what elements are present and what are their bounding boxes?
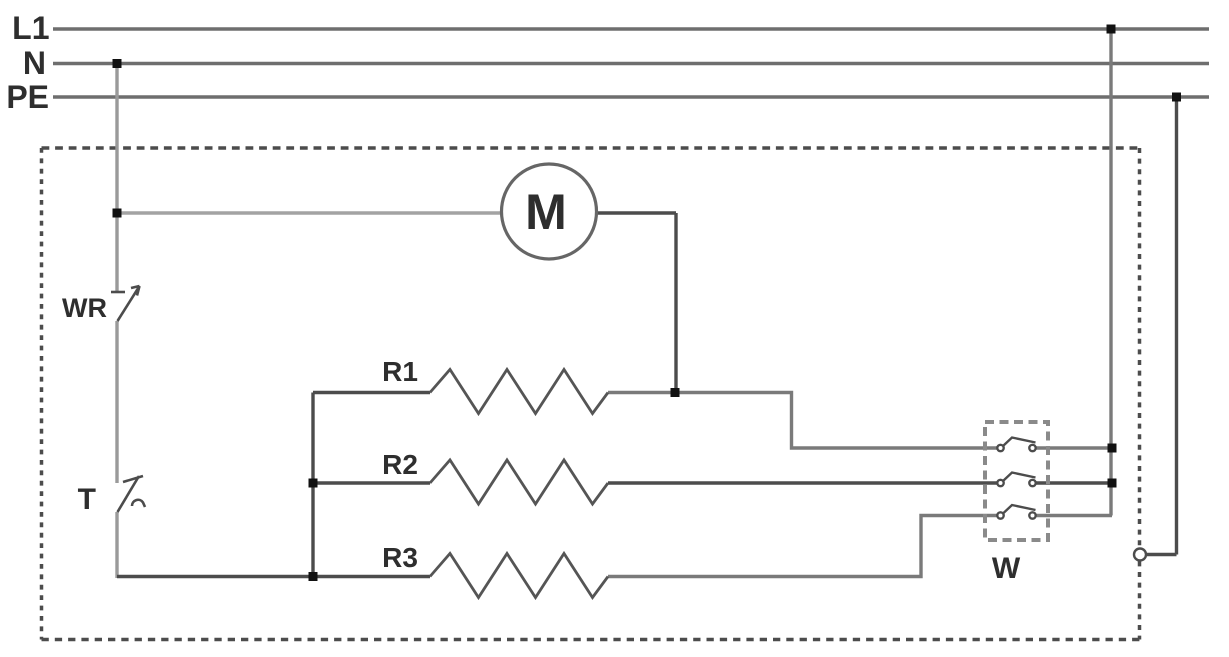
svg-text:WR: WR — [62, 293, 107, 323]
svg-text:R3: R3 — [382, 542, 418, 573]
svg-text:T: T — [78, 483, 96, 516]
svg-text:L1: L1 — [12, 10, 49, 46]
svg-text:M: M — [525, 184, 567, 240]
svg-text:R2: R2 — [382, 449, 418, 480]
svg-text:W: W — [992, 552, 1021, 585]
svg-text:R1: R1 — [382, 356, 418, 387]
svg-text:N: N — [23, 45, 46, 81]
svg-text:PE: PE — [6, 79, 49, 115]
